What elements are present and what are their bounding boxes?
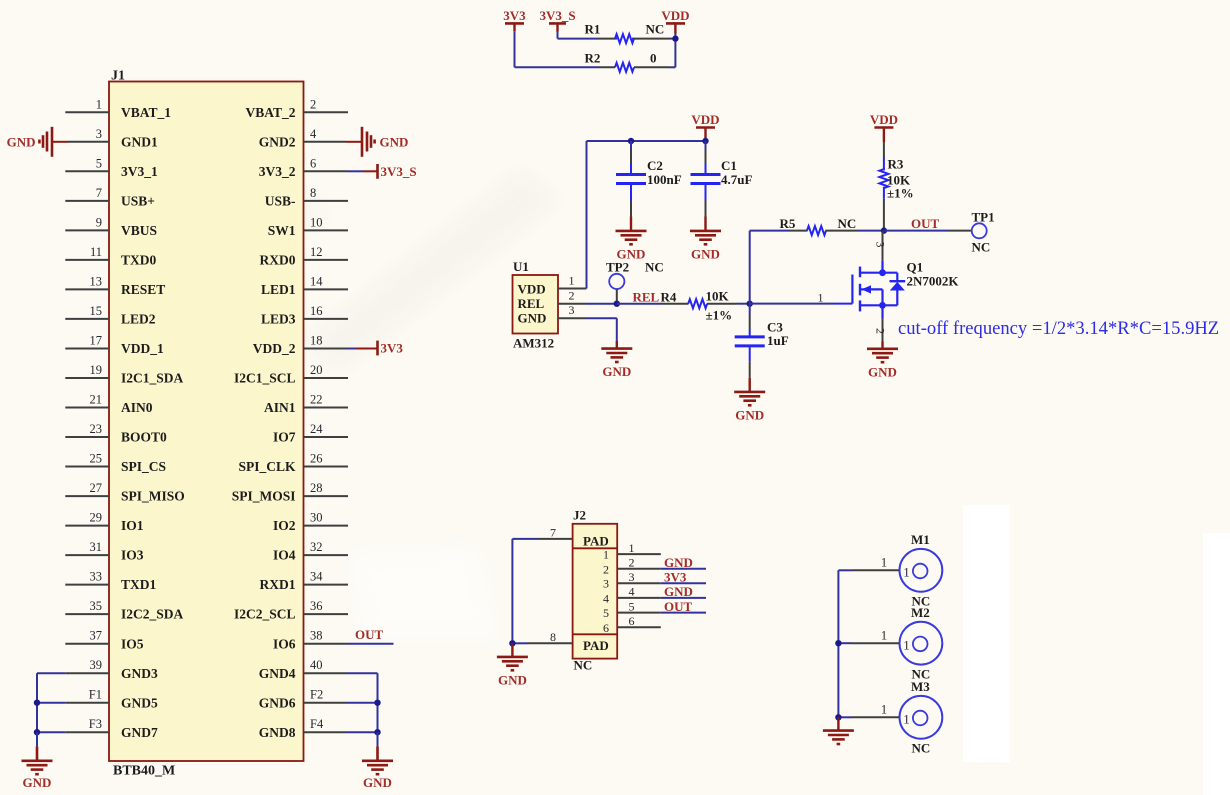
svg-text:C1: C1 [721, 158, 737, 173]
J1 pin 13 wire [65, 274, 109, 289]
ground symbol below Q1 [867, 342, 898, 380]
svg-text:GND: GND [602, 364, 631, 379]
J2 pin 2 wire [603, 556, 706, 577]
connector J2 body [573, 508, 618, 673]
svg-text:6: 6 [629, 614, 635, 628]
svg-text:4: 4 [629, 585, 635, 599]
svg-text:LED3: LED3 [261, 312, 296, 327]
svg-text:28: 28 [310, 481, 323, 495]
svg-text:IO6: IO6 [273, 636, 296, 651]
mounting hole M1 [900, 532, 943, 609]
J1 pin 30 wire [304, 511, 349, 526]
svg-text:R2: R2 [585, 50, 601, 65]
svg-text:3: 3 [603, 577, 609, 591]
svg-text:3V3_1: 3V3_1 [121, 164, 158, 179]
svg-text:3: 3 [629, 570, 635, 584]
ground symbol at J1 pin 3 [7, 127, 52, 157]
wire from 3V3_S to R1 [558, 32, 599, 39]
svg-text:NC: NC [972, 240, 991, 255]
svg-text:33: 33 [90, 570, 103, 584]
J1 pin 32 wire [304, 540, 349, 555]
svg-text:SPI_MOSI: SPI_MOSI [232, 489, 296, 504]
svg-text:6: 6 [310, 156, 316, 170]
svg-text:M1: M1 [911, 532, 930, 547]
svg-text:12: 12 [310, 245, 323, 259]
svg-text:100nF: 100nF [647, 172, 682, 187]
ground symbol below C3 [734, 378, 765, 423]
J1 pin 36 wire [304, 599, 349, 614]
svg-text:30: 30 [310, 511, 323, 525]
J1 pin 31 wire [65, 540, 109, 555]
capacitor C1 4.7uF [691, 141, 753, 217]
J2 pin 6 wire [603, 614, 661, 635]
svg-text:R5: R5 [780, 216, 796, 231]
svg-text:GND: GND [691, 246, 720, 261]
svg-text:GND8: GND8 [259, 725, 296, 740]
svg-text:VBUS: VBUS [121, 223, 157, 238]
svg-text:IO3: IO3 [121, 548, 144, 563]
svg-text:1: 1 [96, 97, 102, 111]
svg-text:3V3: 3V3 [381, 341, 404, 356]
transistor Q1 2N7002K [835, 260, 959, 312]
ground symbol below M3 [823, 717, 854, 744]
power flag 3V3 at J1 pin 18 [378, 341, 404, 356]
svg-text:4.7uF: 4.7uF [721, 172, 752, 187]
svg-text:VDD_2: VDD_2 [253, 341, 296, 356]
svg-text:2: 2 [629, 556, 635, 570]
svg-text:TP1: TP1 [972, 209, 995, 224]
svg-text:3V3_S: 3V3_S [539, 8, 575, 23]
svg-text:2: 2 [569, 289, 575, 303]
junction at F4 [374, 729, 380, 735]
Q1 source wire pin 2 [874, 305, 888, 341]
J1 pin 3 wire [52, 127, 109, 142]
svg-text:19: 19 [90, 363, 103, 377]
svg-text:1uF: 1uF [767, 333, 789, 348]
svg-text:GND: GND [664, 584, 693, 599]
mounting hole M2 [900, 605, 943, 682]
svg-text:1: 1 [603, 548, 609, 562]
svg-text:OUT: OUT [664, 599, 693, 614]
svg-text:39: 39 [90, 658, 103, 672]
J2 pin 5 wire [603, 599, 706, 620]
J1 pin 16 wire [304, 304, 349, 319]
junction VDD/R1/R2 [672, 35, 678, 41]
J1 pin 18 wire [304, 334, 378, 349]
J1 pin 1 wire [65, 97, 109, 112]
svg-text:USB+: USB+ [121, 193, 155, 208]
wire R2 to VDD vertical [670, 39, 676, 68]
J1 pin 6 wire [304, 156, 378, 171]
svg-text:GND: GND [664, 555, 693, 570]
svg-text:REL: REL [633, 290, 660, 305]
svg-text:29: 29 [90, 511, 103, 525]
svg-text:GND6: GND6 [259, 695, 296, 710]
wire junction up to R5 [749, 231, 751, 304]
svg-text:GND5: GND5 [121, 695, 158, 710]
svg-text:5: 5 [96, 156, 102, 170]
junction R4/C3/R5/gate [747, 301, 753, 307]
J1 pin 22 wire [304, 393, 349, 408]
wire R1 to VDD junction [670, 38, 676, 40]
svg-text:cut-off frequency =1/2*3.14*R*: cut-off frequency =1/2*3.14*R*C=15.9HZ [898, 318, 1219, 339]
svg-text:26: 26 [310, 452, 323, 466]
svg-text:F2: F2 [310, 688, 323, 702]
svg-text:2: 2 [874, 328, 888, 334]
svg-text:3: 3 [569, 303, 575, 317]
junction C2 top [628, 138, 634, 144]
svg-text:1: 1 [903, 712, 910, 727]
svg-text:GND: GND [23, 775, 52, 790]
svg-text:VBAT_2: VBAT_2 [245, 105, 295, 120]
svg-text:NC: NC [574, 658, 593, 673]
svg-text:3: 3 [874, 242, 888, 248]
ground symbol at J1 pin 4 [362, 127, 408, 157]
svg-text:TXD1: TXD1 [121, 577, 157, 592]
sensor U1 AM312 body [513, 259, 559, 350]
svg-text:AIN0: AIN0 [121, 400, 153, 415]
J1 pin 17 wire [65, 334, 109, 349]
wire junction to TP1 [884, 230, 972, 232]
J1 pin 2 wire [304, 97, 349, 112]
ground symbol below J2 [497, 643, 528, 687]
J1 pin 35 wire [65, 599, 109, 614]
svg-text:C2: C2 [647, 158, 663, 173]
power flag 3V3_S at J1 pin 6 [378, 164, 417, 179]
power flag VDD (R3) [870, 112, 898, 142]
power flag 3V3_S (top) [539, 8, 575, 32]
J1 pin 37 wire [65, 629, 109, 644]
svg-text:2N7002K: 2N7002K [907, 274, 960, 289]
svg-text:3: 3 [96, 127, 102, 141]
J1 pin F3 wire [37, 717, 109, 732]
ground symbol below U1 [601, 341, 632, 379]
svg-text:F1: F1 [89, 688, 102, 702]
svg-text:IO2: IO2 [273, 518, 296, 533]
svg-text:37: 37 [90, 629, 103, 643]
svg-text:GND: GND [380, 134, 409, 149]
svg-text:1: 1 [881, 703, 887, 717]
J1 pin F4 wire [304, 717, 378, 732]
svg-text:GND: GND [363, 775, 392, 790]
svg-text:36: 36 [310, 599, 323, 613]
Q1 drain wire pin 3 [874, 231, 888, 273]
svg-text:F4: F4 [310, 717, 324, 731]
svg-text:PAD: PAD [583, 534, 609, 549]
svg-text:LED2: LED2 [121, 312, 156, 327]
wire gate from junction [750, 291, 835, 305]
svg-text:20: 20 [310, 363, 323, 377]
test point TP2 NC [606, 259, 664, 303]
svg-text:M3: M3 [911, 679, 930, 694]
svg-text:NC: NC [838, 216, 857, 231]
svg-text:1: 1 [881, 628, 887, 642]
svg-text:USB-: USB- [265, 193, 296, 208]
svg-text:1: 1 [903, 565, 910, 580]
svg-text:VDD: VDD [870, 112, 898, 127]
J1 pin 23 wire [65, 422, 109, 437]
svg-text:SPI_MISO: SPI_MISO [121, 489, 185, 504]
J1 pin F2 wire [304, 688, 378, 703]
J1 pin 4 wire [304, 127, 363, 142]
svg-text:3V3: 3V3 [503, 8, 526, 23]
svg-text:1: 1 [629, 541, 635, 555]
J1 pin 12 wire [304, 245, 349, 260]
svg-text:J2: J2 [573, 508, 586, 523]
svg-text:34: 34 [310, 570, 323, 584]
svg-text:RXD1: RXD1 [260, 577, 296, 592]
svg-text:1: 1 [818, 291, 824, 305]
svg-text:REL: REL [518, 296, 545, 311]
svg-text:PAD: PAD [583, 638, 609, 653]
mounting hole M3 [900, 679, 943, 756]
svg-text:6: 6 [603, 621, 609, 635]
J1 pin 19 wire [65, 363, 109, 378]
svg-text:GND3: GND3 [121, 666, 158, 681]
svg-text:16: 16 [310, 304, 323, 318]
J1 pin 39 wire [37, 658, 109, 673]
svg-text:8: 8 [550, 630, 556, 644]
svg-text:±1%: ±1% [887, 186, 914, 201]
svg-text:GND1: GND1 [121, 134, 158, 149]
svg-text:0: 0 [650, 50, 657, 65]
J1 pin F1 wire [37, 688, 109, 703]
svg-text:J1: J1 [111, 69, 125, 84]
U1 pin 2 wire [558, 289, 617, 304]
svg-text:23: 23 [90, 422, 103, 436]
J1 pin 25 wire [65, 452, 109, 467]
U1 pin 3 wire [558, 303, 617, 318]
svg-text:R3: R3 [888, 157, 904, 172]
svg-text:1: 1 [903, 637, 910, 652]
J1 pin 11 wire [65, 245, 109, 260]
svg-text:24: 24 [310, 422, 323, 436]
svg-text:SW1: SW1 [268, 223, 296, 238]
svg-text:5: 5 [603, 606, 609, 620]
J1 pin 7 wire [65, 186, 109, 201]
svg-text:1: 1 [881, 556, 887, 570]
svg-text:GND4: GND4 [259, 666, 296, 681]
svg-text:11: 11 [90, 245, 102, 259]
svg-text:RXD0: RXD0 [260, 253, 296, 268]
left GND bus wire of J1 [36, 673, 38, 732]
J1 pin 24 wire [304, 422, 349, 437]
svg-text:TP2: TP2 [606, 259, 629, 274]
test point TP1 NC [972, 209, 995, 254]
svg-text:NC: NC [645, 259, 664, 274]
J1 pin 20 wire [304, 363, 349, 378]
J1 pin 38 wire [304, 629, 394, 644]
right GND bus wire of J1 [377, 673, 379, 732]
resistor R2 0 [585, 50, 670, 72]
svg-text:F3: F3 [89, 717, 102, 731]
svg-text:21: 21 [90, 393, 103, 407]
svg-text:I2C2_SCL: I2C2_SCL [234, 607, 296, 622]
J2 pin 3 wire [603, 570, 706, 591]
svg-text:35: 35 [90, 599, 103, 613]
J1 pin 28 wire [304, 481, 349, 496]
junction TP2/REL [614, 301, 620, 307]
svg-text:15: 15 [90, 304, 103, 318]
svg-text:GND: GND [518, 311, 547, 326]
svg-text:13: 13 [90, 274, 103, 288]
svg-text:31: 31 [90, 540, 103, 554]
svg-text:7: 7 [550, 525, 556, 539]
svg-text:Q1: Q1 [907, 260, 924, 275]
power flag VDD (middle) [691, 112, 719, 141]
wire M bus [837, 570, 839, 717]
J1 pin 5 wire [65, 156, 109, 171]
junction M2 [835, 640, 841, 646]
svg-text:7: 7 [96, 186, 102, 200]
J1 pin 40 wire [304, 658, 378, 673]
svg-text:M2: M2 [911, 605, 930, 620]
svg-text:VDD_1: VDD_1 [121, 341, 164, 356]
svg-text:IO7: IO7 [273, 430, 296, 445]
M3 pin 1 wire [838, 703, 899, 718]
M2 pin 1 wire [838, 628, 899, 643]
J2 pin 1 wire [603, 541, 661, 562]
J1 pin 29 wire [65, 511, 109, 526]
svg-text:SPI_CLK: SPI_CLK [238, 459, 296, 474]
svg-text:NC: NC [912, 741, 931, 756]
junction M3 [835, 714, 841, 720]
svg-text:14: 14 [310, 274, 323, 288]
svg-text:LED1: LED1 [261, 282, 296, 297]
svg-text:AIN1: AIN1 [264, 400, 296, 415]
wire J2 pad bus [511, 539, 513, 643]
junction R3/R5/OUT/drain [881, 227, 887, 233]
resistor R5 NC [750, 216, 884, 235]
J1 pin 9 wire [65, 215, 109, 230]
J1 pin 26 wire [304, 452, 349, 467]
svg-text:U1: U1 [513, 259, 529, 274]
svg-text:OUT: OUT [355, 627, 384, 642]
svg-text:NC: NC [646, 22, 665, 37]
svg-text:BTB40_M: BTB40_M [113, 764, 175, 779]
svg-text:±1%: ±1% [706, 308, 733, 323]
resistor R3 10K 1% [879, 142, 913, 230]
svg-text:AM312: AM312 [513, 335, 554, 350]
VDD rail wire to U1 pin1 [587, 141, 706, 289]
svg-text:GND2: GND2 [259, 134, 296, 149]
svg-text:32: 32 [310, 540, 323, 554]
svg-text:BOOT0: BOOT0 [121, 430, 167, 445]
svg-text:VBAT_1: VBAT_1 [121, 105, 171, 120]
J1 pin 21 wire [65, 393, 109, 408]
power flag 3V3 (top) [503, 8, 526, 31]
svg-text:3V3: 3V3 [664, 569, 687, 584]
U1 pin 1 wire [558, 273, 587, 288]
svg-text:22: 22 [310, 393, 323, 407]
J1 pin 10 wire [304, 215, 349, 230]
svg-text:GND: GND [868, 364, 897, 379]
svg-text:18: 18 [310, 334, 323, 348]
junction C1 top [702, 138, 708, 144]
svg-text:GND: GND [7, 134, 36, 149]
svg-text:4: 4 [310, 127, 317, 141]
svg-text:SPI_CS: SPI_CS [121, 459, 166, 474]
svg-text:RESET: RESET [121, 282, 165, 297]
junction at F3 [34, 729, 40, 735]
connector J1 body BTB40_M [109, 69, 304, 779]
capacitor C2 100nF [616, 141, 682, 217]
svg-text:2: 2 [603, 562, 609, 576]
capacitor C3 1uF [735, 304, 789, 378]
wire from 3V3 down to R2 [515, 31, 599, 67]
junction J2 pad/GND [509, 640, 515, 646]
svg-text:5: 5 [629, 599, 635, 613]
J1 pin 8 wire [304, 186, 349, 201]
resistor R4 10K [617, 289, 750, 323]
svg-text:TXD0: TXD0 [121, 253, 157, 268]
svg-text:VDD: VDD [518, 282, 546, 297]
svg-text:VDD: VDD [661, 8, 689, 23]
power flag VDD (top) [661, 8, 689, 39]
svg-text:1: 1 [569, 273, 575, 287]
svg-text:2: 2 [310, 97, 316, 111]
svg-text:GND7: GND7 [121, 725, 158, 740]
svg-text:IO4: IO4 [273, 548, 296, 563]
svg-text:I2C1_SCL: I2C1_SCL [234, 371, 296, 386]
J1 pin 15 wire [65, 304, 109, 319]
svg-text:10K: 10K [706, 289, 730, 304]
J1 pin 33 wire [65, 570, 109, 585]
J2 pin 4 wire [603, 585, 706, 606]
svg-text:17: 17 [90, 334, 103, 348]
J1 pin 14 wire [304, 274, 349, 289]
svg-text:4: 4 [603, 591, 609, 605]
svg-text:I2C2_SDA: I2C2_SDA [121, 607, 184, 622]
ground symbol below C1 [690, 217, 721, 262]
J1 pin 34 wire [304, 570, 349, 585]
M1 pin 1 wire [838, 556, 899, 571]
svg-text:38: 38 [310, 629, 323, 643]
ground symbol below J1 left bus [22, 732, 53, 790]
svg-text:25: 25 [90, 452, 103, 466]
svg-text:GND: GND [498, 672, 527, 687]
junction at F1 [34, 700, 40, 706]
svg-text:OUT: OUT [911, 216, 940, 231]
svg-text:IO5: IO5 [121, 636, 144, 651]
svg-text:3V3_2: 3V3_2 [259, 164, 296, 179]
svg-text:9: 9 [96, 215, 102, 229]
svg-text:R1: R1 [585, 22, 601, 37]
svg-text:10: 10 [310, 215, 323, 229]
svg-text:3V3_S: 3V3_S [381, 164, 417, 179]
ground symbol below J1 right bus [362, 732, 393, 790]
svg-text:I2C1_SDA: I2C1_SDA [121, 371, 184, 386]
junction at F2 [374, 700, 380, 706]
svg-text:GND: GND [735, 407, 764, 422]
svg-text:VDD: VDD [691, 112, 719, 127]
resistor R1 NC [585, 22, 670, 44]
svg-text:R4: R4 [661, 290, 677, 305]
ground symbol below C2 [616, 217, 647, 262]
wire U1 pin3 to ground [616, 318, 618, 341]
J1 pin 27 wire [65, 481, 109, 496]
svg-text:8: 8 [310, 186, 316, 200]
svg-text:IO1: IO1 [121, 518, 144, 533]
svg-text:27: 27 [90, 481, 103, 495]
J2 pin 8 wire [512, 630, 572, 644]
svg-text:40: 40 [310, 658, 323, 672]
J2 pin 7 wire [512, 525, 572, 539]
